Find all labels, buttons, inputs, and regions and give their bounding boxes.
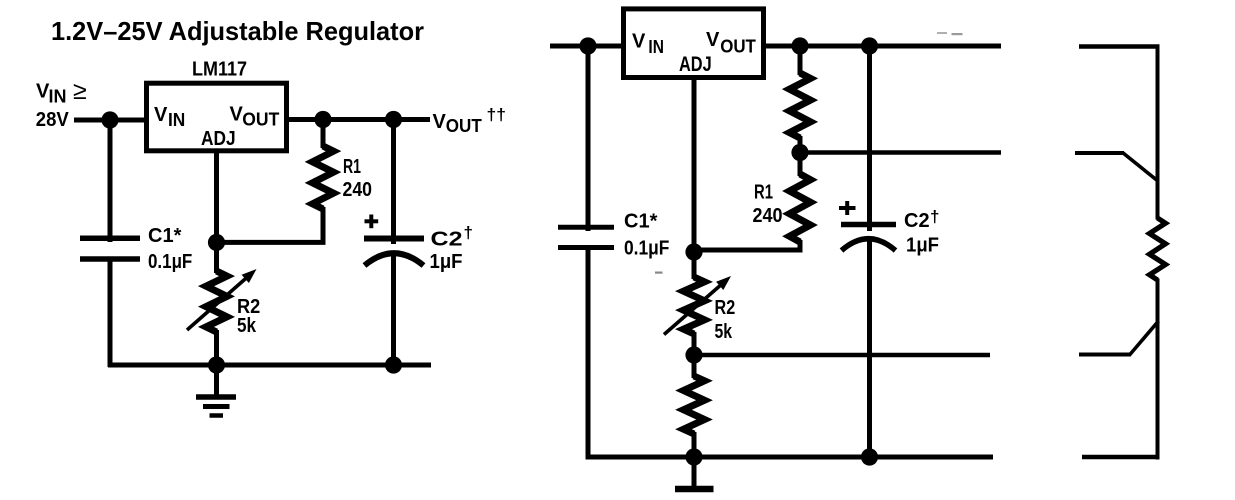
junction: R2 tap node (right) — [685, 346, 702, 363]
svg-text:1μF: 1μF — [906, 235, 939, 257]
resistor R1 zigzag (left) — [313, 146, 334, 209]
svg-text:C1*: C1* — [624, 211, 658, 233]
wire: R2 bottom to ground rail (left) — [214, 330, 219, 367]
svg-text:†: † — [464, 223, 473, 242]
ground symbol (right) — [675, 457, 714, 489]
potentiometer arrow R2 (right) — [664, 276, 731, 335]
value label C2+ (right) — [904, 207, 939, 232]
svg-text:IN: IN — [49, 87, 67, 107]
wire: ADJ node to R1 bottom (right) — [694, 240, 800, 250]
svg-text:V: V — [433, 111, 447, 133]
wire: C2 down to ground rail (right) — [867, 238, 872, 460]
wire: input feed (right) — [550, 44, 623, 49]
svg-text:††: †† — [487, 105, 507, 124]
wire: tap line 3 (right) — [694, 353, 990, 358]
wire: VIN input to node A (left) — [74, 118, 146, 123]
capacitor C1 top plate (right) — [558, 225, 614, 230]
svg-text:OUT: OUT — [242, 110, 279, 130]
junction: VOUT/C2 node (left) — [385, 111, 402, 128]
value label C2+ (left) — [431, 223, 473, 251]
svg-text:C2: C2 — [904, 210, 930, 232]
wire: node to R1 top (left) — [321, 120, 326, 149]
svg-text:C2: C2 — [431, 229, 463, 251]
wire: C2 node down to plate (right) — [867, 43, 872, 231]
wire: R1 bottom to ADJ node (left) — [217, 207, 324, 242]
wire: VIN node down to C1 (right) — [586, 43, 591, 231]
wire: node down to R1 (right) — [798, 43, 803, 75]
svg-text:R1: R1 — [754, 181, 773, 203]
wire: line 4 right segment (ground rail) — [1082, 455, 1159, 460]
wire: selector vertical bus lower — [1156, 279, 1160, 460]
capacitor C2 curved plate (right) — [842, 239, 896, 251]
resistor R3 zigzag (selector) — [1150, 218, 1166, 280]
wire: node A down to C1 (left) — [108, 117, 113, 242]
wire: C2 node down to plate (left) — [391, 117, 396, 244]
svg-text:28V: 28V — [36, 109, 70, 131]
svg-text:IN: IN — [648, 37, 664, 57]
wire: ADJ pin down (right) — [692, 77, 697, 279]
wire: C1 to ground rail (left) — [108, 259, 113, 367]
wire: R2 bottom to ground rail (right) — [692, 432, 697, 460]
svg-text:V: V — [154, 104, 168, 126]
wire: C1 down to ground rail (right) — [586, 248, 591, 460]
resistor R1 upper zigzag (right) — [790, 73, 811, 138]
svg-text:OUT: OUT — [446, 116, 482, 136]
junction: VOUT/C2 node (right) — [861, 37, 878, 54]
scan artifact dash 3 — [655, 272, 663, 274]
svg-text:5k: 5k — [237, 315, 257, 337]
svg-text:V: V — [632, 31, 646, 53]
svg-text:ADJ: ADJ — [679, 53, 712, 76]
junction: R1 tap node (right) — [791, 144, 808, 161]
wire: VOUT pin to line 1 (right) — [763, 44, 1001, 49]
svg-text:V: V — [706, 29, 720, 51]
scan artifact dash 1 — [937, 32, 947, 34]
capacitor C2 top plate (left) — [364, 236, 424, 242]
junction: R2/ground node (right) — [685, 448, 702, 465]
svg-text:≥: ≥ — [73, 77, 87, 105]
resistor R2 zigzag (left) — [206, 271, 227, 332]
resistor R1 lower zigzag (right) — [790, 174, 811, 242]
wire: line 2 right segment — [1075, 151, 1124, 155]
switch contact from line 3 — [1130, 321, 1159, 355]
polarity + label C2 (left) — [365, 215, 379, 229]
pin label VOUT (left box) — [230, 104, 280, 130]
svg-text:IN: IN — [168, 110, 185, 130]
wire: ground rail (left) — [108, 363, 431, 368]
wire: ground rail (right) — [587, 455, 993, 460]
capacitor C2 curved plate (left) — [365, 253, 424, 265]
net label VIN >= 28V — [36, 77, 87, 131]
svg-text:C1*: C1* — [148, 225, 182, 247]
wire: line 1 right segment — [1079, 44, 1160, 49]
resistor R2 lower zigzag (right) — [684, 376, 705, 434]
junction: VOUT/R1 node (right) — [791, 37, 808, 54]
pin label VOUT (right box) — [706, 29, 756, 56]
svg-text:LM117: LM117 — [192, 58, 247, 80]
net label VOUT++ (output, left) — [433, 105, 507, 136]
svg-text:240: 240 — [343, 179, 373, 201]
switch contact from line 2 — [1123, 153, 1159, 182]
polarity + label C2 (right) — [839, 201, 856, 215]
capacitor C1 top plate (left) — [80, 236, 140, 242]
wire: selector vertical bus upper — [1156, 45, 1160, 220]
capacitor C1 bottom plate (left) — [80, 256, 140, 262]
junction: ADJ node (right) — [685, 243, 702, 260]
wire: line 3 right segment — [1079, 353, 1131, 357]
svg-text:1μF: 1μF — [430, 251, 463, 273]
regulator U1 LM117 box (left) — [147, 83, 287, 151]
svg-text:OUT: OUT — [720, 37, 756, 57]
wire: tap line 2 (right) — [800, 150, 1001, 155]
svg-text:240: 240 — [753, 205, 783, 227]
regulator U2 box (right) — [624, 9, 764, 78]
pin label VIN (left box) — [154, 104, 185, 130]
wire: C2 to ground rail (left) — [391, 252, 396, 367]
svg-text:†: † — [930, 207, 939, 226]
svg-text:ADJ: ADJ — [201, 128, 236, 150]
svg-text:R2: R2 — [715, 297, 736, 319]
pin label VIN (right box) — [632, 31, 664, 58]
svg-text:0.1μF: 0.1μF — [624, 238, 669, 260]
resistor R2 upper zigzag (right) — [684, 277, 705, 334]
junction: VIN/C1 node (right) — [579, 37, 596, 54]
junction: C2/ground node (right) — [861, 448, 878, 465]
svg-text:5k: 5k — [715, 321, 733, 343]
wire: ADJ pin down (left) — [214, 151, 219, 273]
capacitor C1 bottom plate (right) — [558, 245, 614, 250]
wire: R1 upper to tap (right) — [798, 136, 803, 176]
capacitor C2 top plate (right) — [841, 222, 896, 228]
junction: VOUT/R1 node (left) — [314, 111, 331, 128]
junction: C2/ground node (left) — [385, 356, 402, 373]
ground symbol (left) — [196, 365, 236, 416]
wire: R2 wiper tap (right) — [692, 332, 697, 378]
svg-text:R1: R1 — [343, 156, 361, 178]
potentiometer arrow R2 (left) — [187, 269, 257, 330]
junction: input node A (left) — [101, 111, 118, 128]
wire: VOUT pin to output (left) — [287, 117, 430, 122]
svg-text:0.1μF: 0.1μF — [148, 251, 192, 273]
svg-text:1.2V–25V Adjustable Regulator: 1.2V–25V Adjustable Regulator — [51, 16, 424, 46]
scan artifact dash 2 — [952, 33, 963, 35]
junction: ADJ/R2 node (left) — [208, 234, 225, 251]
junction: R2/ground node (left) — [208, 356, 225, 373]
